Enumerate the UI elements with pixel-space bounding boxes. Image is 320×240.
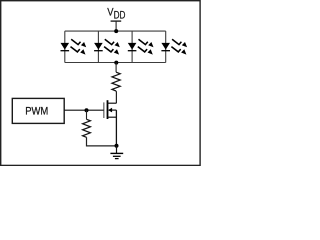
LED D4 (161, 39, 187, 54)
LED D3 (128, 39, 154, 54)
wire VDD stem (115, 21, 117, 31)
junction source node (115, 144, 119, 148)
resistor (LED ballast) (112, 72, 120, 91)
svg-text:PWM: PWM (25, 105, 48, 117)
resistor (gate pulldown) (83, 119, 91, 137)
wire resistor to drain (115, 91, 117, 103)
PWM block (12, 98, 64, 123)
source tap (108, 116, 117, 118)
channel bar (107, 100, 109, 119)
wire top rail (65, 30, 166, 32)
wire LED branch 4 (165, 31, 167, 62)
LED D2 (94, 39, 120, 54)
transistor Q1 N-channel MOSFET (104, 100, 117, 146)
power rail symbol VDD (111, 20, 122, 22)
junction top rail / VDD (114, 29, 118, 33)
wire LED branch 1 (64, 31, 66, 62)
wire source lead (115, 110, 117, 146)
wire bottom rail (65, 62, 166, 64)
gate bar (103, 102, 105, 118)
ground (110, 153, 123, 158)
wire PWM output to gate (64, 109, 104, 111)
drain tap (108, 102, 117, 104)
wire source node to ground (116, 146, 118, 154)
wire LED branch 2 (97, 31, 99, 62)
wire bottom rail to drain resistor (115, 63, 117, 73)
svg-text:DD: DD (114, 9, 126, 21)
wire junction to gate resistor (86, 110, 88, 119)
junction bottom rail / drain branch (114, 61, 118, 65)
junction gate wire / gate resistor (85, 108, 89, 112)
wire gate resistor to source node (87, 137, 117, 146)
wire LED branch 3 (131, 31, 133, 62)
border frame (1, 1, 200, 166)
LED D1 (61, 39, 87, 54)
body arrow (111, 109, 116, 111)
net VDD label (107, 7, 126, 22)
